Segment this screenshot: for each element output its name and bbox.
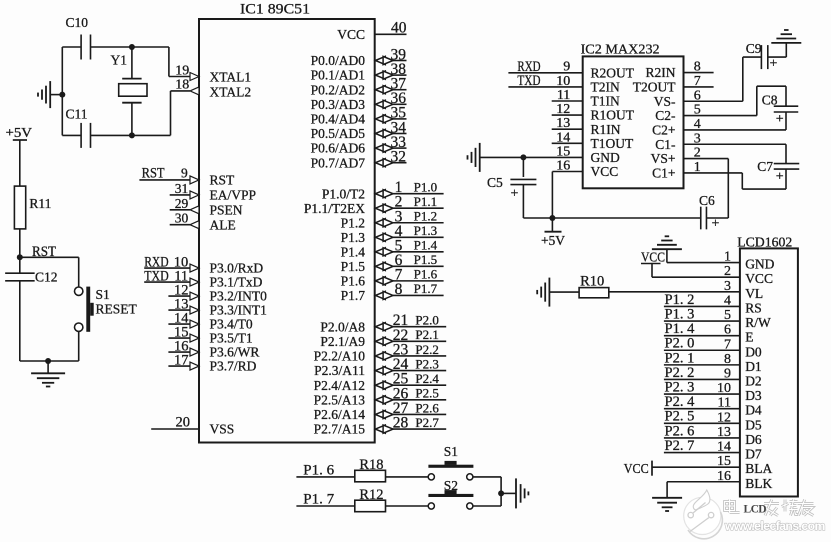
svg-text:16: 16 — [556, 159, 570, 174]
svg-text:LCD1602: LCD1602 — [737, 236, 792, 251]
svg-text:+: + — [770, 57, 778, 72]
svg-text:P2. 3: P2. 3 — [665, 379, 695, 395]
svg-text:+: + — [776, 112, 784, 127]
svg-text:RST: RST — [210, 173, 236, 188]
svg-text:P0.2/AD2: P0.2/AD2 — [311, 82, 365, 97]
svg-text:+5V: +5V — [541, 233, 565, 248]
svg-text:C6: C6 — [699, 193, 715, 208]
svg-text:VCC: VCC — [624, 462, 649, 477]
svg-text:+: + — [511, 186, 519, 201]
svg-text:C5: C5 — [487, 175, 503, 190]
svg-text:P1. 4: P1. 4 — [665, 321, 696, 337]
svg-text:T1IN: T1IN — [591, 94, 620, 109]
svg-text:P1.1/T2EX: P1.1/T2EX — [304, 201, 365, 216]
svg-text:8: 8 — [395, 281, 403, 298]
svg-text:RST: RST — [142, 166, 165, 182]
svg-text:P2. 7: P2. 7 — [665, 438, 695, 454]
svg-text:P1.7: P1.7 — [414, 281, 438, 296]
svg-text:28: 28 — [393, 415, 409, 432]
svg-text:18: 18 — [175, 78, 189, 93]
svg-text:P3.1/TxD: P3.1/TxD — [210, 275, 263, 290]
svg-text:P2. 1: P2. 1 — [665, 350, 695, 366]
svg-text:R12: R12 — [359, 487, 383, 503]
svg-text:P1. 3: P1. 3 — [665, 306, 695, 322]
svg-text:P1.2: P1.2 — [414, 209, 437, 224]
svg-text:D6: D6 — [745, 432, 762, 447]
svg-text:P1.4: P1.4 — [341, 244, 366, 259]
svg-text:P2.1/A9: P2.1/A9 — [320, 334, 365, 349]
svg-text:VCC: VCC — [591, 164, 619, 179]
svg-text:T1OUT: T1OUT — [591, 136, 634, 151]
svg-text:13: 13 — [556, 116, 570, 131]
svg-text:10: 10 — [556, 74, 570, 89]
svg-text:R1IN: R1IN — [591, 122, 621, 137]
svg-text:30: 30 — [175, 211, 189, 226]
svg-text:15: 15 — [556, 144, 570, 159]
svg-text:GND: GND — [745, 257, 774, 272]
svg-text:P2.2/A10: P2.2/A10 — [314, 349, 366, 364]
svg-text:P3.6/WR: P3.6/WR — [210, 345, 260, 360]
svg-text:R18: R18 — [359, 457, 383, 473]
svg-text:P2.2: P2.2 — [415, 342, 438, 357]
svg-text:S2: S2 — [444, 478, 458, 493]
svg-text:P1.6: P1.6 — [414, 267, 438, 282]
svg-text:C7: C7 — [757, 159, 773, 174]
svg-text:P1.3: P1.3 — [341, 230, 366, 245]
svg-text:VSS: VSS — [210, 422, 235, 437]
svg-text:S1: S1 — [444, 444, 458, 459]
svg-text:12: 12 — [556, 102, 570, 117]
svg-text:P2. 5: P2. 5 — [665, 409, 695, 425]
svg-text:17: 17 — [174, 352, 189, 368]
svg-text:R11: R11 — [29, 196, 51, 211]
svg-text:P1.6: P1.6 — [341, 273, 366, 288]
svg-text:31: 31 — [175, 181, 189, 196]
svg-text:Y1: Y1 — [111, 53, 128, 68]
svg-text:P2.3/A11: P2.3/A11 — [314, 363, 365, 378]
svg-text:P0.3/AD3: P0.3/AD3 — [311, 97, 366, 112]
svg-text:P0.7/AD7: P0.7/AD7 — [311, 155, 366, 170]
svg-text:IC1 89C51: IC1 89C51 — [240, 2, 310, 18]
svg-text:PSEN: PSEN — [210, 202, 243, 217]
svg-text:VS-: VS- — [654, 94, 676, 109]
svg-text:D5: D5 — [745, 417, 762, 432]
svg-text:P1. 2: P1. 2 — [665, 292, 695, 308]
svg-text:D1: D1 — [745, 359, 762, 374]
svg-text:BLK: BLK — [745, 476, 772, 491]
svg-text:P2.1: P2.1 — [415, 327, 438, 342]
svg-text:P1.3: P1.3 — [414, 223, 437, 238]
svg-text:P1.4: P1.4 — [414, 238, 438, 253]
svg-text:S1: S1 — [96, 287, 110, 302]
svg-text:P1.5: P1.5 — [341, 259, 366, 274]
svg-text:D4: D4 — [745, 403, 762, 418]
svg-text:D2: D2 — [745, 373, 762, 388]
svg-text:P0.1/AD1: P0.1/AD1 — [311, 68, 365, 83]
svg-text:P2. 4: P2. 4 — [665, 394, 696, 410]
svg-text:P2.3: P2.3 — [415, 356, 438, 371]
svg-text:C1-: C1- — [655, 137, 676, 152]
svg-text:GND: GND — [591, 150, 620, 165]
svg-text:VCC: VCC — [745, 271, 773, 286]
svg-text:11: 11 — [557, 88, 570, 103]
svg-text:14: 14 — [556, 130, 570, 145]
svg-text:RST: RST — [32, 244, 56, 260]
svg-text:VCC: VCC — [337, 27, 365, 42]
svg-text:+: + — [776, 169, 784, 184]
svg-text:P2.6/A14: P2.6/A14 — [314, 407, 366, 422]
svg-text:P2.7: P2.7 — [415, 415, 439, 430]
svg-text:P3.7/RD: P3.7/RD — [210, 359, 257, 374]
svg-text:C10: C10 — [66, 15, 89, 30]
svg-text:19: 19 — [175, 63, 189, 78]
svg-text:P2.4/A12: P2.4/A12 — [314, 378, 365, 393]
svg-text:C2-: C2- — [655, 108, 676, 123]
svg-text:P2. 6: P2. 6 — [665, 423, 695, 439]
svg-text:P1. 7: P1. 7 — [303, 491, 334, 507]
svg-text:P2.0/A8: P2.0/A8 — [320, 319, 365, 334]
svg-text:29: 29 — [175, 196, 189, 211]
svg-text:R1OUT: R1OUT — [591, 108, 635, 123]
svg-text:P3.0/RxD: P3.0/RxD — [210, 261, 264, 276]
svg-text:P0.6/AD6: P0.6/AD6 — [311, 141, 366, 156]
svg-text:www.elecfans.com: www.elecfans.com — [724, 519, 826, 533]
svg-text:E: E — [745, 330, 753, 345]
svg-text:P1. 6: P1. 6 — [303, 462, 334, 478]
svg-text:P3.4/T0: P3.4/T0 — [210, 317, 253, 332]
svg-text:C1+: C1+ — [652, 166, 675, 181]
svg-text:XTAL2: XTAL2 — [210, 84, 252, 99]
svg-text:BLA: BLA — [745, 461, 772, 476]
svg-text:C12: C12 — [35, 270, 58, 285]
svg-text:P2.6: P2.6 — [415, 400, 439, 415]
svg-text:T2IN: T2IN — [591, 80, 620, 95]
svg-text:P1.0: P1.0 — [414, 180, 437, 195]
svg-text:VS+: VS+ — [651, 151, 676, 166]
svg-text:P2.7/A15: P2.7/A15 — [314, 422, 366, 437]
svg-text:P2.0: P2.0 — [415, 313, 438, 328]
svg-text:D7: D7 — [745, 447, 762, 462]
svg-text:+: + — [712, 217, 720, 232]
svg-text:9: 9 — [563, 60, 570, 75]
svg-text:P3.5/T1: P3.5/T1 — [210, 331, 253, 346]
svg-text:9: 9 — [181, 165, 188, 180]
svg-text:40: 40 — [391, 20, 407, 37]
svg-text:P2. 2: P2. 2 — [665, 365, 695, 381]
svg-text:P1.0/T2: P1.0/T2 — [322, 186, 365, 201]
svg-text:XTAL1: XTAL1 — [210, 70, 252, 85]
svg-text:P2.5: P2.5 — [415, 386, 438, 401]
svg-text:+5V: +5V — [6, 126, 32, 141]
svg-text:P0.0/AD0: P0.0/AD0 — [311, 53, 366, 68]
svg-text:P1.7: P1.7 — [341, 288, 366, 303]
svg-text:P1.5: P1.5 — [414, 252, 437, 267]
svg-text:P2. 0: P2. 0 — [665, 336, 695, 352]
svg-text:P0.5/AD5: P0.5/AD5 — [311, 126, 366, 141]
svg-text:T2OUT: T2OUT — [633, 80, 676, 95]
svg-text:C2+: C2+ — [652, 123, 675, 138]
svg-text:EA/VPP: EA/VPP — [210, 188, 257, 203]
svg-text:C8: C8 — [762, 92, 778, 107]
svg-text:20: 20 — [176, 414, 191, 430]
svg-text:32: 32 — [391, 149, 407, 166]
svg-text:C11: C11 — [66, 106, 88, 121]
svg-text:P3.3/INT1: P3.3/INT1 — [210, 303, 267, 318]
svg-text:R/W: R/W — [745, 315, 771, 330]
svg-text:D3: D3 — [745, 388, 762, 403]
svg-text:P2.5/A13: P2.5/A13 — [314, 392, 366, 407]
svg-text:D0: D0 — [745, 344, 762, 359]
svg-text:P0.4/AD4: P0.4/AD4 — [311, 112, 366, 127]
svg-text:C9: C9 — [746, 41, 762, 56]
svg-text:RESET: RESET — [96, 302, 138, 317]
svg-text:P2.4: P2.4 — [415, 371, 439, 386]
svg-text:P3.2/INT0: P3.2/INT0 — [210, 289, 268, 304]
svg-text:RS: RS — [745, 300, 762, 315]
svg-text:R10: R10 — [580, 273, 604, 289]
svg-text:IC2 MAX232: IC2 MAX232 — [581, 43, 660, 58]
svg-text:LCD: LCD — [744, 504, 767, 516]
svg-text:P1.2: P1.2 — [341, 215, 365, 230]
svg-text:R2IN: R2IN — [646, 65, 676, 80]
svg-text:VL: VL — [745, 286, 763, 301]
svg-text:R2OUT: R2OUT — [591, 65, 635, 80]
svg-text:ALE: ALE — [210, 217, 236, 232]
svg-text:P1.1: P1.1 — [414, 194, 437, 209]
